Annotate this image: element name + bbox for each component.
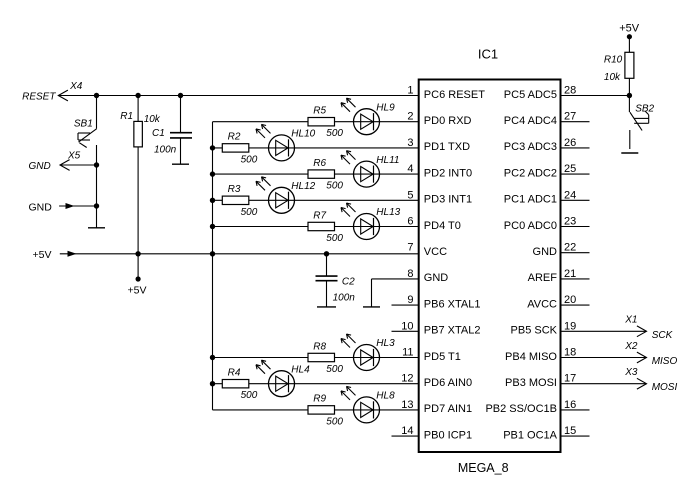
svg-text:R1: R1 — [120, 111, 133, 122]
svg-text:10k: 10k — [604, 72, 621, 83]
pin 24 label PC1 ADC1 — [504, 189, 576, 205]
svg-text:PB6 XTAL1: PB6 XTAL1 — [424, 298, 481, 310]
svg-text:19: 19 — [564, 320, 576, 332]
wire R10 bottom — [628, 78, 630, 95]
net label MOSI — [652, 382, 678, 393]
svg-text:HL3: HL3 — [376, 338, 395, 349]
pushbutton SB2 — [629, 96, 654, 131]
svg-text:PC6 RESET: PC6 RESET — [424, 89, 485, 101]
pin 28 label PC5 ADC5 — [504, 85, 576, 101]
svg-text:PD4 T0: PD4 T0 — [424, 220, 461, 232]
wire pin 8 GND — [372, 279, 419, 303]
svg-text:1: 1 — [407, 85, 413, 97]
wire pin 22 stub — [561, 252, 590, 254]
svg-text:PB1 OC1A: PB1 OC1A — [503, 429, 557, 441]
wire row pin12 — [213, 383, 419, 385]
ground (SB2) — [621, 152, 638, 154]
pin 14 label PB0 ICP1 — [401, 425, 472, 441]
svg-text:23: 23 — [564, 216, 576, 228]
resistor R3 — [222, 184, 257, 218]
pin 6 label PD4 T0 — [407, 216, 461, 232]
connector X2 — [624, 341, 646, 363]
svg-text:X1: X1 — [624, 315, 637, 326]
pin 21 label AREF — [528, 268, 577, 284]
pin 27 label PC4 ADC4 — [504, 111, 576, 127]
svg-text:PC5 ADC5: PC5 ADC5 — [504, 89, 557, 101]
svg-text:R9: R9 — [313, 394, 326, 405]
wire C2 top — [326, 254, 328, 276]
wire pin row10 to X1 — [561, 330, 647, 332]
LED HL3 — [341, 334, 395, 371]
power +5V flag — [128, 276, 147, 296]
ground (SB1 branch) — [88, 206, 105, 228]
LED HL9 — [341, 98, 395, 135]
junction +5V/LED bus — [210, 251, 215, 256]
pin 2 label PD0 RXD — [407, 111, 471, 127]
svg-text:PC4 ADC4: PC4 ADC4 — [504, 115, 557, 127]
wire pin 20 stub — [561, 304, 590, 306]
connector X5 — [60, 151, 81, 171]
wire pin 27 stub — [561, 121, 590, 123]
ground (C1) — [172, 163, 189, 165]
wire row pin3 — [213, 147, 419, 149]
wire +5V rail — [60, 253, 419, 255]
svg-text:SCK: SCK — [652, 330, 674, 341]
svg-text:500: 500 — [241, 207, 258, 218]
wire X5 to GND arrow — [96, 165, 98, 206]
svg-text:100n: 100n — [154, 144, 177, 155]
LED HL4 — [256, 360, 310, 397]
wire R1 top — [137, 96, 139, 122]
svg-text:HL10: HL10 — [291, 129, 315, 140]
svg-text:PD7 AIN1: PD7 AIN1 — [424, 403, 472, 415]
net label +5V — [33, 249, 52, 261]
svg-text:VCC: VCC — [424, 246, 447, 258]
svg-text:GND: GND — [533, 246, 558, 258]
svg-text:PC1 ADC1: PC1 ADC1 — [504, 194, 557, 206]
pin 5 label PD3 INT1 — [407, 189, 472, 205]
svg-text:R6: R6 — [313, 158, 326, 169]
svg-text:GND: GND — [29, 161, 51, 172]
wire SB2 bottom — [629, 130, 631, 149]
svg-text:PC0 ADC0: PC0 ADC0 — [504, 220, 557, 232]
svg-text:15: 15 — [564, 425, 576, 437]
svg-text:HL12: HL12 — [291, 181, 315, 192]
pushbutton SB1 — [74, 119, 97, 148]
pin 18 label PB4 MISO — [505, 347, 576, 363]
IC IC1 designator — [478, 47, 498, 62]
svg-text:500: 500 — [326, 364, 343, 375]
net label GND (X5) — [29, 161, 51, 172]
svg-text:25: 25 — [564, 163, 576, 175]
LED HL12 — [256, 177, 316, 214]
svg-text:500: 500 — [326, 181, 343, 192]
resistor R7 — [308, 210, 343, 244]
svg-text:17: 17 — [564, 373, 576, 385]
svg-text:R4: R4 — [228, 368, 241, 379]
junction RESET/R1 — [135, 93, 140, 98]
wire C1 top — [180, 96, 182, 133]
wire pin row11 to X2 — [561, 357, 647, 359]
wire pin 24 stub — [561, 199, 590, 201]
svg-text:16: 16 — [564, 399, 576, 411]
pin 11 label PD5 T1 — [402, 347, 461, 363]
junction RESET/SB1 — [94, 93, 99, 98]
wire R10 top — [628, 37, 630, 53]
wire pin 23 stub — [561, 226, 590, 228]
svg-text:HL4: HL4 — [291, 364, 310, 375]
svg-text:14: 14 — [401, 425, 413, 437]
wire pin 16 stub — [561, 409, 590, 411]
+5V feed arrow — [68, 251, 77, 257]
junction RESET/C1 — [178, 93, 183, 98]
junction bus/row pin4 — [210, 171, 215, 176]
svg-text:5: 5 — [407, 189, 413, 201]
svg-text:12: 12 — [401, 373, 413, 385]
svg-text:27: 27 — [564, 111, 576, 123]
wire pin 21 stub — [561, 278, 590, 280]
svg-text:R2: R2 — [228, 132, 241, 143]
LED HL13 — [341, 203, 401, 240]
wire pin 25 stub — [561, 173, 590, 175]
resistor R9 — [308, 394, 343, 428]
svg-text:GND: GND — [424, 272, 449, 284]
wire pin row12 to X3 — [561, 383, 647, 385]
svg-text:2: 2 — [407, 111, 413, 123]
pin 12 label PD6 AIN0 — [401, 373, 472, 389]
net label GND (input) — [29, 202, 53, 214]
svg-text:IC1: IC1 — [478, 47, 498, 62]
connector X1 — [624, 315, 646, 337]
svg-text:SB2: SB2 — [635, 104, 654, 115]
svg-text:100n: 100n — [333, 292, 356, 303]
svg-text:9: 9 — [407, 294, 413, 306]
pin 23 label PC0 ADC0 — [504, 216, 576, 232]
junction +5V/C2 — [324, 251, 329, 256]
net label RESET — [22, 92, 56, 103]
junction bus/row pin12 — [210, 381, 215, 386]
ground (C2) — [317, 306, 336, 308]
svg-text:PD1 TXD: PD1 TXD — [424, 141, 470, 153]
pin 19 label PB5 SCK — [511, 320, 577, 336]
pin 22 label GND — [533, 242, 577, 258]
svg-text:13: 13 — [401, 399, 413, 411]
wire +5V flag stub — [137, 254, 139, 278]
pin 1 label PC6 RESET — [407, 85, 485, 101]
resistor R4 — [222, 368, 257, 402]
pin 25 label PC2 ADC2 — [504, 163, 576, 179]
svg-text:HL9: HL9 — [376, 102, 395, 113]
pin 20 label AVCC — [527, 294, 576, 310]
pin 26 label PC3 ADC3 — [504, 137, 576, 153]
svg-text:PB7 XTAL2: PB7 XTAL2 — [424, 325, 481, 337]
ground (pin 8) — [363, 303, 380, 307]
resistor R10 — [604, 52, 634, 83]
svg-text:500: 500 — [241, 154, 258, 165]
svg-text:C1: C1 — [152, 128, 165, 139]
svg-text:R10: R10 — [604, 55, 623, 66]
svg-text:GND: GND — [29, 202, 53, 214]
resistor R1 — [120, 111, 161, 147]
svg-text:10k: 10k — [144, 114, 161, 125]
svg-text:HL11: HL11 — [376, 155, 399, 166]
svg-text:R3: R3 — [228, 184, 241, 195]
wire row pin2 — [213, 121, 419, 123]
svg-text:PD6 AIN0: PD6 AIN0 — [424, 377, 472, 389]
IC IC1 body — [419, 80, 561, 453]
svg-text:+5V: +5V — [619, 22, 640, 34]
svg-text:+5V: +5V — [128, 284, 147, 296]
wire row pin11 — [213, 357, 419, 359]
pin 9 label PB6 XTAL1 — [407, 294, 480, 310]
resistor R2 — [222, 132, 257, 166]
svg-text:X4: X4 — [69, 81, 83, 92]
pin 16 label PB2 SS/OC1B — [485, 399, 576, 415]
svg-text:PB5 SCK: PB5 SCK — [511, 325, 558, 337]
wire pin 26 stub — [561, 147, 590, 149]
svg-text:AREF: AREF — [528, 272, 558, 284]
svg-text:20: 20 — [564, 294, 576, 306]
svg-text:+5V: +5V — [33, 249, 52, 261]
svg-text:24: 24 — [564, 189, 576, 201]
pin 3 label PD1 TXD — [407, 137, 470, 153]
svg-text:MEGA_8: MEGA_8 — [458, 461, 509, 475]
junction +5V/R1 — [135, 251, 140, 256]
svg-text:PB2 SS/OC1B: PB2 SS/OC1B — [485, 403, 557, 415]
junction bus/row pin11 — [210, 355, 215, 360]
wire R1 bottom — [137, 147, 139, 254]
svg-text:R8: R8 — [313, 341, 326, 352]
junction X5 — [94, 162, 99, 167]
svg-text:500: 500 — [326, 416, 343, 427]
svg-text:PD0 RXD: PD0 RXD — [424, 115, 472, 127]
wire X5 — [60, 164, 97, 166]
svg-text:7: 7 — [407, 242, 413, 254]
svg-text:500: 500 — [326, 233, 343, 244]
junction bus/row pin5 — [210, 198, 215, 203]
svg-text:PD3 INT1: PD3 INT1 — [424, 194, 472, 206]
wire LED bus vertical — [212, 122, 214, 410]
svg-text:PD2 INT0: PD2 INT0 — [424, 167, 472, 179]
capacitor C2 — [316, 276, 356, 303]
svg-text:10: 10 — [401, 320, 413, 332]
wire SB1 top — [96, 96, 98, 129]
svg-text:PB4 MISO: PB4 MISO — [505, 351, 557, 363]
wire C1 bottom — [180, 138, 182, 164]
wire pin 14 stub — [392, 435, 419, 437]
LED HL11 — [341, 151, 399, 188]
svg-text:R7: R7 — [313, 210, 326, 221]
wire pin 28 net — [561, 95, 630, 97]
svg-text:4: 4 — [407, 163, 413, 175]
capacitor C1 — [152, 128, 192, 155]
svg-text:11: 11 — [402, 347, 413, 359]
wire row pin13 — [213, 409, 419, 411]
wire C2 bottom — [326, 281, 328, 307]
svg-text:PD5 T1: PD5 T1 — [424, 351, 461, 363]
LED HL10 — [256, 124, 316, 160]
svg-text:21: 21 — [564, 268, 576, 280]
resistor R8 — [308, 341, 343, 375]
junction GND — [94, 203, 99, 208]
svg-text:MISO: MISO — [652, 356, 678, 367]
pin 7 label VCC — [407, 242, 447, 258]
svg-text:X3: X3 — [624, 367, 638, 378]
svg-text:C2: C2 — [342, 276, 355, 287]
pin 13 label PD7 AIN1 — [401, 399, 472, 415]
svg-text:26: 26 — [564, 137, 576, 149]
svg-text:R5: R5 — [313, 106, 326, 117]
IC IC1 type MEGA_8 — [458, 461, 509, 475]
svg-text:22: 22 — [564, 242, 576, 254]
resistor R5 — [308, 106, 343, 140]
resistor R6 — [308, 158, 343, 192]
junction bus/row pin6 — [210, 224, 215, 229]
pin 8 label GND — [407, 268, 448, 284]
pin 4 label PD2 INT0 — [407, 163, 472, 179]
svg-text:3: 3 — [407, 137, 413, 149]
net label MISO — [652, 356, 678, 367]
wire row pin4 — [213, 173, 419, 175]
net label SCK — [652, 330, 674, 341]
wire pin 10 stub — [392, 330, 419, 332]
wire pin 15 stub — [561, 435, 590, 437]
svg-text:MOSI: MOSI — [652, 382, 678, 393]
svg-text:PC2 ADC2: PC2 ADC2 — [504, 167, 557, 179]
svg-text:6: 6 — [407, 216, 413, 228]
svg-text:AVCC: AVCC — [527, 298, 557, 310]
svg-text:8: 8 — [407, 268, 413, 280]
pin 15 label PB1 OC1A — [503, 425, 576, 441]
pin 10 label PB7 XTAL2 — [401, 320, 480, 336]
junction pin28/R10/SB2 — [627, 93, 632, 98]
connector X3 — [624, 367, 646, 389]
wire row pin6 — [213, 226, 419, 228]
svg-text:X2: X2 — [624, 341, 638, 352]
svg-text:18: 18 — [564, 347, 576, 359]
svg-text:RESET: RESET — [22, 92, 56, 103]
svg-text:HL13: HL13 — [376, 207, 400, 218]
LED HL8 — [341, 386, 395, 423]
svg-text:PB0 ICP1: PB0 ICP1 — [424, 429, 472, 441]
wire RESET net — [58, 95, 418, 97]
svg-text:X5: X5 — [67, 151, 81, 162]
wire pin 9 stub — [392, 304, 419, 306]
svg-text:HL8: HL8 — [376, 391, 395, 402]
wire SB1 bottom — [96, 145, 98, 165]
svg-text:SB1: SB1 — [74, 119, 93, 130]
svg-text:PC3 ADC3: PC3 ADC3 — [504, 141, 557, 153]
pin 17 label PB3 MOSI — [505, 373, 576, 389]
junction bus/row pin3 — [210, 145, 215, 150]
svg-text:PB3 MOSI: PB3 MOSI — [505, 377, 557, 389]
connector X4 — [58, 81, 82, 101]
svg-text:500: 500 — [326, 128, 343, 139]
wire row pin5 — [213, 199, 419, 201]
GND input arrow — [59, 203, 96, 209]
svg-text:500: 500 — [241, 390, 258, 401]
svg-text:28: 28 — [564, 85, 576, 97]
power +5V flag (R10) — [619, 22, 640, 39]
